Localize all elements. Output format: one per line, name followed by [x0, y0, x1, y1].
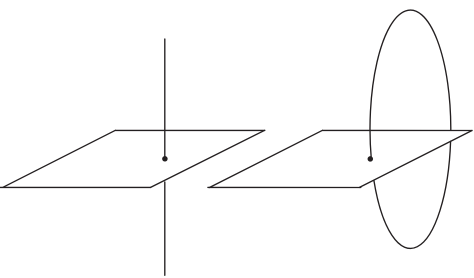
intersection point dot on plane P1 [162, 156, 168, 162]
plane P2 left edge [210, 130, 323, 187]
plane P1 top back edge [115, 129, 264, 131]
plane P1 left edge [3, 130, 115, 187]
line L upper segment (above plane P1) [164, 39, 166, 157]
intersection point dot on plane P2 [368, 156, 374, 162]
plane P1 bottom front edge [0, 186, 151, 188]
plane P2 right edge [360, 131, 473, 188]
plane P1 right edge [151, 130, 265, 187]
plane P2 bottom front edge [208, 186, 361, 188]
circle C lower visible arc (from front right edge around bottom up to front edge) [374, 141, 451, 248]
line L lower segment (below front edge of plane P1) [164, 182, 166, 275]
circle C upper visible arc (from dot up over top to back edge of plane P2) [370, 10, 451, 159]
plane P2 top back edge [323, 129, 473, 131]
